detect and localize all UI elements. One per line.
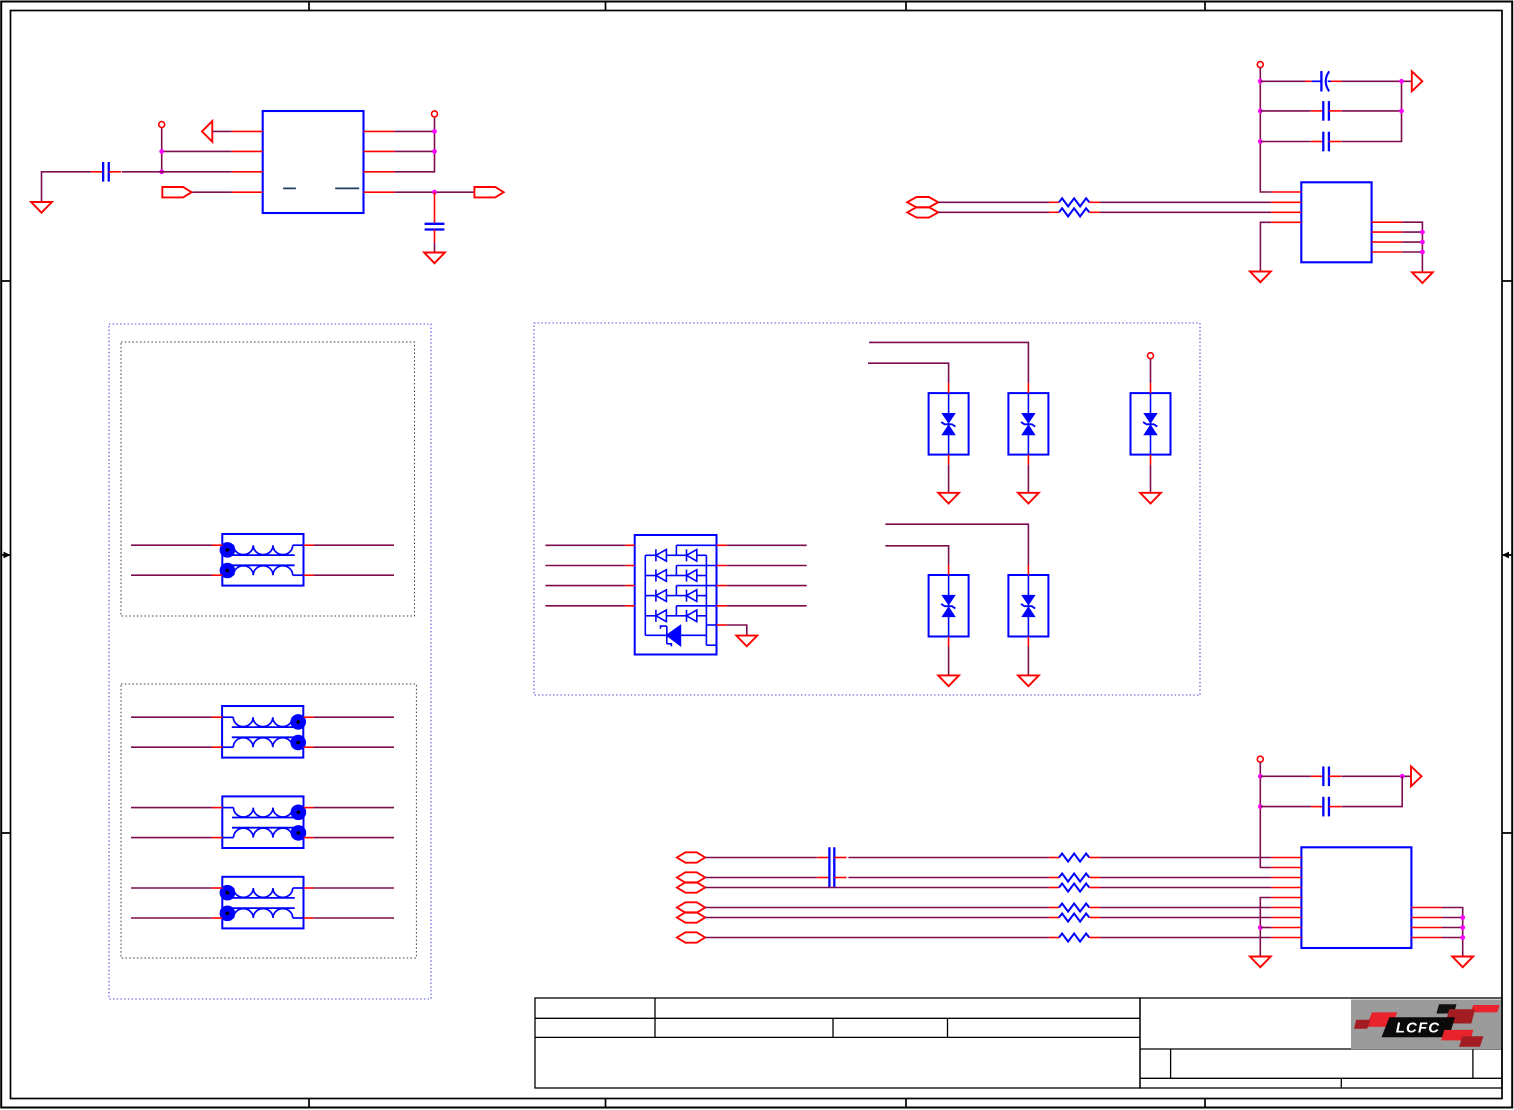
resistor R6 <box>1049 907 1059 909</box>
IC U4 <box>1301 847 1411 948</box>
wire net row2 <box>705 877 817 879</box>
open-end circle D3 <box>1148 353 1154 359</box>
wire net1 <box>938 201 1049 203</box>
capacitor C1 (series) <box>91 171 103 173</box>
zone ticks right <box>1502 281 1512 833</box>
wire <box>1341 80 1411 82</box>
wire D1 to ground <box>948 455 950 465</box>
zone ticks left <box>1 281 10 833</box>
capacitor C7 <box>1311 806 1323 808</box>
wire net <box>705 907 1049 909</box>
wire U3 output <box>727 585 807 587</box>
resistor R2 <box>1049 211 1059 213</box>
wire D3 top <box>1150 359 1152 383</box>
wire power bus vertical <box>1260 68 1271 192</box>
wire net to D2 <box>869 342 1028 383</box>
ground <box>938 675 959 686</box>
open-end circle node A <box>159 122 165 128</box>
wire L4 <box>131 887 212 889</box>
ground <box>1018 493 1039 504</box>
wire <box>1260 141 1311 143</box>
off-page hex connector net1 <box>907 197 938 207</box>
wire net to D5 <box>885 524 1028 565</box>
resistor R5 <box>1049 887 1059 889</box>
junction <box>432 129 437 134</box>
wire <box>1100 917 1271 919</box>
off-page arrow connector (left, row1) <box>202 121 212 142</box>
wire <box>1100 907 1271 909</box>
TVS diode D4 <box>929 575 969 637</box>
junction <box>1399 79 1404 84</box>
U2 left pins <box>1271 192 1301 222</box>
wire <box>1260 927 1271 929</box>
junction <box>1420 250 1425 255</box>
wire <box>1100 937 1271 939</box>
junction <box>1258 804 1263 809</box>
ground <box>1452 957 1473 968</box>
U4 left pins <box>1271 858 1301 938</box>
wire net1 to U2 <box>1100 201 1271 203</box>
resistor R8 <box>1049 937 1059 939</box>
wire <box>848 857 1049 859</box>
D2 top pin <box>1027 383 1029 393</box>
dotted group box left (blue) <box>109 324 431 999</box>
wire row4 right <box>395 191 475 193</box>
open-end circle VCC node <box>1257 756 1263 762</box>
junction <box>1460 925 1465 930</box>
off-page arrow connector (right) <box>1412 71 1423 91</box>
wire <box>1442 927 1463 929</box>
resistor R3 <box>1049 857 1059 859</box>
common-mode choke L3 <box>222 796 306 848</box>
junction <box>1258 109 1263 114</box>
ground <box>31 202 52 213</box>
open-end circle VCC node <box>1257 62 1263 68</box>
wire <box>1402 251 1422 253</box>
capacitor C9 (series) <box>817 877 829 879</box>
off-page hex connector net2 <box>907 207 938 217</box>
wire L3 <box>131 807 212 809</box>
ground <box>424 253 445 264</box>
U3 zener diode <box>645 625 716 646</box>
zone ticks top <box>309 2 1205 11</box>
wire right loop <box>1342 776 1403 806</box>
capacitor C4 <box>1311 110 1323 112</box>
wire D2 to ground <box>1027 455 1029 465</box>
wire <box>848 877 1049 879</box>
off-page hex connector <box>677 932 705 942</box>
U3 left pins <box>625 545 634 606</box>
wire <box>1260 80 1305 82</box>
common-mode choke L2 <box>222 706 306 758</box>
wire U3 input <box>545 565 625 567</box>
wire right bus <box>1341 81 1401 141</box>
U3 ground pin wire <box>717 624 727 626</box>
wire L1 <box>131 574 212 576</box>
wire net2 <box>938 211 1049 213</box>
ground <box>1250 272 1271 283</box>
ground <box>938 493 959 504</box>
D3 top pin <box>1150 383 1152 393</box>
wire U4 right bus <box>1442 908 1463 957</box>
common-mode choke L1 <box>220 534 304 586</box>
ground <box>1250 957 1271 968</box>
U4 right pins <box>1411 908 1442 938</box>
junction <box>1400 774 1405 779</box>
wire net <box>705 917 1049 919</box>
ground <box>1412 272 1433 283</box>
IC U2 <box>1301 182 1371 262</box>
junction <box>1420 230 1425 235</box>
dotted group box left upper (gray) <box>121 342 415 616</box>
wire U3 output <box>727 605 807 607</box>
off-page hex connector <box>677 852 705 862</box>
resistor R1 <box>1049 201 1059 203</box>
TVS diode D5 <box>1008 575 1048 637</box>
wire row2 <box>162 150 232 152</box>
TVS diode D3 <box>1131 393 1171 455</box>
wire row4 input <box>193 191 232 193</box>
wire <box>1260 775 1311 777</box>
capacitor C8 (series) <box>817 857 829 859</box>
off-page hex connector <box>677 902 705 912</box>
wire <box>1341 110 1401 112</box>
wire <box>1442 917 1463 919</box>
off-page arrow connector (right) <box>1411 766 1422 786</box>
dotted group box middle (blue) <box>534 323 1200 695</box>
wire row1 to arrow <box>212 130 232 132</box>
wire <box>1402 241 1422 243</box>
wire U2 right bus <box>1402 222 1422 272</box>
wire vertical node A <box>161 128 163 172</box>
zone ticks bottom <box>309 1099 1205 1108</box>
U3 right pins <box>717 545 727 606</box>
ground <box>1140 493 1161 504</box>
off-page flag connector (input, row4) <box>162 187 191 197</box>
wire net to D4 <box>885 546 948 565</box>
ground <box>1018 675 1039 686</box>
wire D3 to ground <box>1150 455 1152 465</box>
junction <box>1258 774 1263 779</box>
wire <box>1342 775 1412 777</box>
wire net <box>705 887 1049 889</box>
D4 top pin <box>948 565 950 575</box>
title block table <box>535 998 1502 1088</box>
junction <box>432 149 437 154</box>
wire row1 right <box>395 130 435 132</box>
wire U3 input <box>545 544 625 546</box>
IC U1 <box>263 111 364 213</box>
junction <box>1258 139 1263 144</box>
capacitor C5 <box>1311 141 1323 143</box>
wire U3 input <box>545 585 625 587</box>
ground <box>736 636 757 647</box>
off-page flag connector (output, row4) <box>474 187 503 197</box>
junction <box>1460 915 1465 920</box>
wire row2 right <box>395 150 435 152</box>
common-mode choke L4 <box>220 877 304 929</box>
wire <box>1260 110 1311 112</box>
wire L1 <box>131 544 212 546</box>
wire <box>1100 857 1271 859</box>
junction <box>1460 935 1465 940</box>
wire net <box>705 937 1049 939</box>
junction <box>432 190 437 195</box>
wire L2 <box>131 746 212 748</box>
company logo <box>1351 1000 1501 1050</box>
U1 internal label marks <box>283 187 359 189</box>
wire <box>1100 877 1271 879</box>
resistor R7 <box>1049 917 1059 919</box>
wire net row1 <box>705 857 817 859</box>
junction <box>1399 109 1404 114</box>
D1 top pin <box>948 383 950 393</box>
U1 left pins <box>232 131 263 192</box>
junction <box>1420 240 1425 245</box>
off-page hex connector <box>677 872 705 882</box>
zone centre arrow right <box>1502 554 1512 556</box>
wire U2 gnd left <box>1260 222 1271 271</box>
junction <box>159 169 164 174</box>
wire U3 output <box>727 565 807 567</box>
capacitor C2 (decoupling) <box>434 192 436 224</box>
zone centre arrow left <box>1 554 10 556</box>
open-end circle node B <box>432 111 438 117</box>
junction <box>1258 79 1263 84</box>
wire C1 to ground <box>42 172 92 202</box>
D5 top pin <box>1027 565 1029 575</box>
wire <box>1100 887 1271 889</box>
wire U4 ground bus left <box>1260 898 1271 957</box>
capacitor C6 <box>1311 775 1323 777</box>
junction <box>159 149 164 154</box>
wire net to D1 <box>868 363 949 383</box>
U1 right pins <box>364 131 395 192</box>
wire power bus vertical <box>1260 762 1271 867</box>
U2 right pins <box>1372 222 1403 252</box>
off-page hex connector <box>677 882 705 892</box>
wire row3 from capacitor <box>122 171 232 173</box>
resistor R4 <box>1049 877 1059 879</box>
wire U3 input <box>545 605 625 607</box>
TVS diode D1 <box>929 393 969 455</box>
U3 internal diode network <box>645 545 716 645</box>
wire row3 right + vertical node B <box>395 117 435 172</box>
dotted group box left lower (gray) <box>121 684 416 958</box>
wire L3 <box>131 837 212 839</box>
wire D4 to ground <box>948 637 950 647</box>
wire D5 to ground <box>1027 637 1029 647</box>
wire net2 to U2 <box>1100 211 1271 213</box>
wire <box>1442 937 1463 939</box>
diode array U3 <box>635 535 717 655</box>
wire <box>1402 231 1422 233</box>
wire L2 <box>131 716 212 718</box>
junction <box>1258 925 1263 930</box>
wire <box>1260 806 1311 808</box>
wire L4 <box>131 917 212 919</box>
svg-text:LCFC: LCFC <box>1396 1020 1440 1037</box>
TVS diode D2 <box>1008 393 1048 455</box>
off-page hex connector <box>677 912 705 922</box>
wire U3 output <box>727 544 807 546</box>
